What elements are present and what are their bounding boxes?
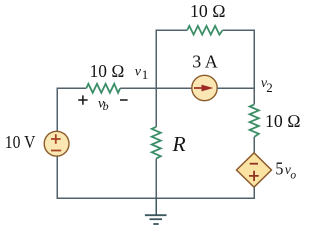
svg-text:3 A: 3 A	[192, 52, 217, 72]
polarity minus sign for vb	[120, 99, 128, 101]
svg-text:o: o	[290, 169, 296, 181]
dependent source 5vo (diamond with minus on top, plus below)	[237, 153, 272, 187]
svg-text:v: v	[135, 65, 142, 80]
wire: left vertical from middle branch corner down to 10V source	[56, 88, 58, 132]
resistor 10 ohm (top)	[187, 26, 222, 35]
ground symbol	[145, 198, 167, 224]
svg-text:10 Ω: 10 Ω	[265, 111, 301, 131]
wire: right vertical from resistor to dependent source	[253, 137, 255, 153]
wire: right vertical from dependent source to bottom-right corner	[253, 187, 255, 199]
wire: middle vertical from resistor R down to bottom wire	[155, 159, 157, 198]
wire: top branch right segment	[223, 29, 255, 31]
svg-text:10 Ω: 10 Ω	[190, 1, 226, 21]
current source 3A (circle with right arrow)	[192, 75, 217, 100]
wire: bottom branch	[57, 197, 256, 199]
svg-text:2: 2	[266, 80, 273, 95]
svg-text:b: b	[103, 99, 109, 113]
svg-text:10 Ω: 10 Ω	[90, 61, 125, 81]
polarity plus sign for vb	[78, 95, 87, 104]
wire: top branch left segment	[156, 29, 188, 31]
wire: middle branch from left corner to 10-ohm resistor	[57, 87, 87, 89]
resistor R (middle vertical)	[152, 127, 161, 159]
svg-text:1: 1	[142, 67, 149, 82]
wire: middle branch from 3A source to node v2	[217, 87, 255, 89]
wire: middle vertical from top corner through node v1 to resistor R	[155, 30, 157, 127]
svg-text:R: R	[172, 132, 186, 156]
svg-text:10 V: 10 V	[5, 132, 36, 152]
resistor 10 ohm (middle-left, voltage vb across it)	[86, 84, 120, 93]
wire: middle branch from resistor to 3A source	[120, 87, 192, 89]
resistor 10 ohm (right vertical)	[250, 104, 259, 136]
wire: right vertical from top corner down to node v2	[253, 30, 255, 105]
wire: left vertical from 10V source down to bottom-left corner	[56, 156, 58, 199]
voltage source 10V (circle with plus/minus)	[44, 131, 69, 156]
svg-text:5: 5	[275, 159, 283, 179]
